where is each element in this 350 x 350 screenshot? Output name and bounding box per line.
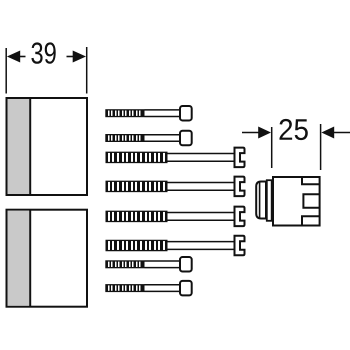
block1 body: [7, 98, 88, 195]
screw 4 slotted head: [235, 177, 245, 197]
block1 gray strip: [8, 99, 30, 194]
screw 7: [105, 257, 191, 272]
screw 6 thread: [106, 240, 168, 252]
dim25 right extension line: [320, 124, 322, 170]
dim39 right tail: [67, 56, 74, 58]
screw 5 slotted head: [235, 207, 245, 227]
screw 4 shaft: [168, 182, 235, 184]
block2 body: [7, 210, 88, 307]
dim39 left tail: [20, 56, 26, 58]
screw 2 shaft: [145, 134, 181, 136]
adapter middle slot: [303, 194, 319, 208]
dim25 left arrowhead (points right): [258, 127, 271, 139]
screw 4 thread: [106, 181, 168, 193]
dim25 right arrowhead (points left): [321, 127, 334, 139]
screw 1 head: [180, 106, 192, 121]
adapter nose cap: [256, 182, 266, 219]
screw 3 thread: [106, 152, 168, 164]
adapter top slot: [302, 177, 320, 184]
dim25 left extension line: [271, 127, 273, 168]
block2 gray strip: [8, 211, 30, 306]
screw 6: [106, 236, 245, 256]
screw 7 thread: [105, 260, 144, 268]
screw 1: [105, 106, 191, 121]
screw 1 thread: [105, 109, 144, 117]
screw 8 shaft: [145, 284, 181, 286]
dim39 right arrowhead: [73, 51, 86, 63]
block2 separator line: [29, 210, 31, 307]
screw 5 thread: [106, 211, 168, 223]
screw 7 shaft: [145, 260, 181, 262]
adapter sleeve part: [256, 177, 319, 226]
dim39 left arrowhead: [7, 51, 20, 63]
screw 3 shaft: [168, 153, 235, 155]
adapter nose inner line: [259, 182, 261, 218]
screw 5 shaft: [168, 212, 235, 214]
screw 1 shaft: [145, 109, 181, 111]
adapter main body: [273, 177, 320, 226]
block1 separator line: [29, 98, 31, 195]
screw 2 thread: [105, 134, 144, 142]
dim25 left tail: [242, 132, 260, 134]
screw 5: [106, 207, 245, 227]
screw 8 thread: [105, 284, 144, 292]
screw 3: [106, 148, 245, 168]
dim39 left extension line: [5, 48, 7, 94]
dim25 label: [280, 119, 308, 140]
dim39 label: [31, 42, 55, 63]
screw 2: [105, 131, 191, 146]
screw 6 slotted head: [235, 236, 245, 256]
screw 2 head: [180, 131, 192, 146]
screw 7 head: [180, 257, 192, 272]
adapter collar: [267, 180, 272, 221]
screw 8 head: [180, 281, 192, 296]
dim25 right tail: [334, 132, 350, 134]
screw 3 slotted head: [235, 148, 245, 168]
screw 4: [106, 177, 245, 197]
screw 8: [105, 281, 191, 296]
dim39 right extension line: [86, 47, 88, 94]
adapter bottom slot: [302, 216, 320, 225]
screw 6 shaft: [168, 241, 235, 243]
